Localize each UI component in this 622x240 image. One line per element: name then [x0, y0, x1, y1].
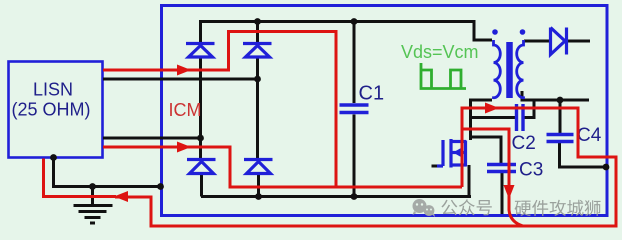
junction dot secondary rail / C4: [557, 97, 564, 104]
diode D1 (bridge top-left): [186, 44, 215, 58]
junction dot top rail / right leg: [254, 18, 261, 25]
wire: MOSFET gate stub: [432, 165, 439, 168]
ground: [74, 187, 113, 224]
drain stub: [453, 140, 467, 143]
junction dot ground node: [89, 183, 96, 190]
wire: C1 vertical top: [353, 22, 356, 104]
red CM wire: lower LISN line to bottom red rail: [103, 147, 462, 187]
secondary winding: [517, 40, 524, 99]
svg-text:C1: C1: [359, 83, 385, 105]
wire: top rail drop to transformer primary top: [474, 22, 492, 41]
svg-text:LISN: LISN: [33, 80, 73, 100]
junction dot top rail / C1: [351, 18, 358, 25]
red arrow down on C3 branch: [504, 185, 515, 199]
red arrow on Vds loop: [485, 103, 499, 114]
body stub: [453, 151, 467, 154]
main converter box (chassis): [162, 6, 608, 216]
watermark text 公众号 硬件攻城狮 (as paths): [441, 200, 457, 216]
core: [506, 42, 513, 98]
MOSFET Q1: [437, 139, 466, 168]
right bar: [464, 141, 467, 167]
wire: top rail: [201, 20, 476, 23]
wire: left bridge leg vertical: [201, 20, 202, 197]
capacitor C3: [487, 165, 516, 172]
channel bar: [449, 139, 452, 168]
MOSFET body arrow: [453, 148, 461, 157]
red arrow to LISN ground: [114, 191, 128, 202]
junction dot chassis left: [157, 183, 164, 190]
diode D3 (bridge bottom-left): [187, 160, 216, 174]
junction dot bottom rail / right leg: [255, 193, 262, 200]
gate lead: [437, 164, 443, 167]
wire: C4 bottom lead to chassis right: [560, 142, 607, 167]
svg-text:Vds=Vcm: Vds=Vcm: [401, 42, 479, 62]
wire: LISN lower black output to left bridge leg: [103, 137, 201, 140]
wire: drain branch to C3 top: [471, 137, 502, 163]
transformer T1: [494, 40, 524, 99]
watermark icon: [413, 199, 436, 217]
diode D4 (bridge bottom-right): [244, 160, 273, 174]
output diode D5: [551, 28, 567, 55]
wire: C4 top lead: [559, 100, 562, 134]
wire: bottom rail: [201, 195, 471, 198]
svg-text:C3: C3: [519, 160, 543, 181]
source stub: [453, 163, 467, 166]
red CM wire: MOSFET loop: [115, 108, 616, 226]
svg-text:(25 OHM): (25 OHM): [11, 100, 90, 120]
svg-text:C2: C2: [512, 133, 536, 154]
red CM wire: C3 branch down: [462, 129, 523, 226]
capacitor C4: [547, 135, 574, 142]
junction dot right leg / upper LISN wire: [254, 76, 261, 83]
wire: C2 left lead: [471, 116, 516, 119]
wire: MOSFET source to bottom rail: [468, 165, 471, 197]
phase dot primary: [492, 29, 498, 35]
red CM wire: upper LISN line to top: [103, 32, 336, 188]
junction dot chassis right / C4: [603, 164, 610, 171]
wire: secondary top to output diode: [524, 40, 550, 43]
waveform Vds: [421, 63, 466, 89]
wire: C2 right lead up to secondary rail: [525, 100, 535, 118]
diode D2 (bridge top-right): [243, 44, 272, 58]
capacitor C1: [340, 105, 369, 113]
red CM wire: LISN bottom red drop: [44, 159, 117, 197]
junction dot LISN bottom: [50, 154, 57, 161]
wire: C1 vertical bottom: [353, 115, 356, 197]
wire: secondary return rail: [522, 91, 589, 100]
wire: LISN ground drop: [54, 158, 162, 187]
wire: output diode to open end: [567, 40, 590, 43]
svg-text:ICM: ICM: [169, 100, 202, 120]
junction dot left leg / lower LISN wire: [197, 135, 204, 142]
wire: C3 bottom lead to chassis: [501, 173, 504, 215]
junction dot bottom rail / C1: [351, 193, 358, 200]
red arrow on upper line: [177, 65, 191, 76]
wire: primary bottom to MOSFET drain: [471, 100, 493, 140]
phase dot secondary: [520, 29, 526, 35]
capacitor C2: [517, 104, 524, 131]
red arrow on lower line: [177, 142, 191, 153]
gate bar: [441, 140, 444, 166]
wire: right bridge leg vertical: [258, 20, 259, 197]
LISN box: [9, 62, 103, 158]
wire: LISN upper black output to right bridge leg: [103, 78, 258, 81]
primary winding: [494, 40, 501, 99]
svg-text:C4: C4: [577, 125, 602, 146]
